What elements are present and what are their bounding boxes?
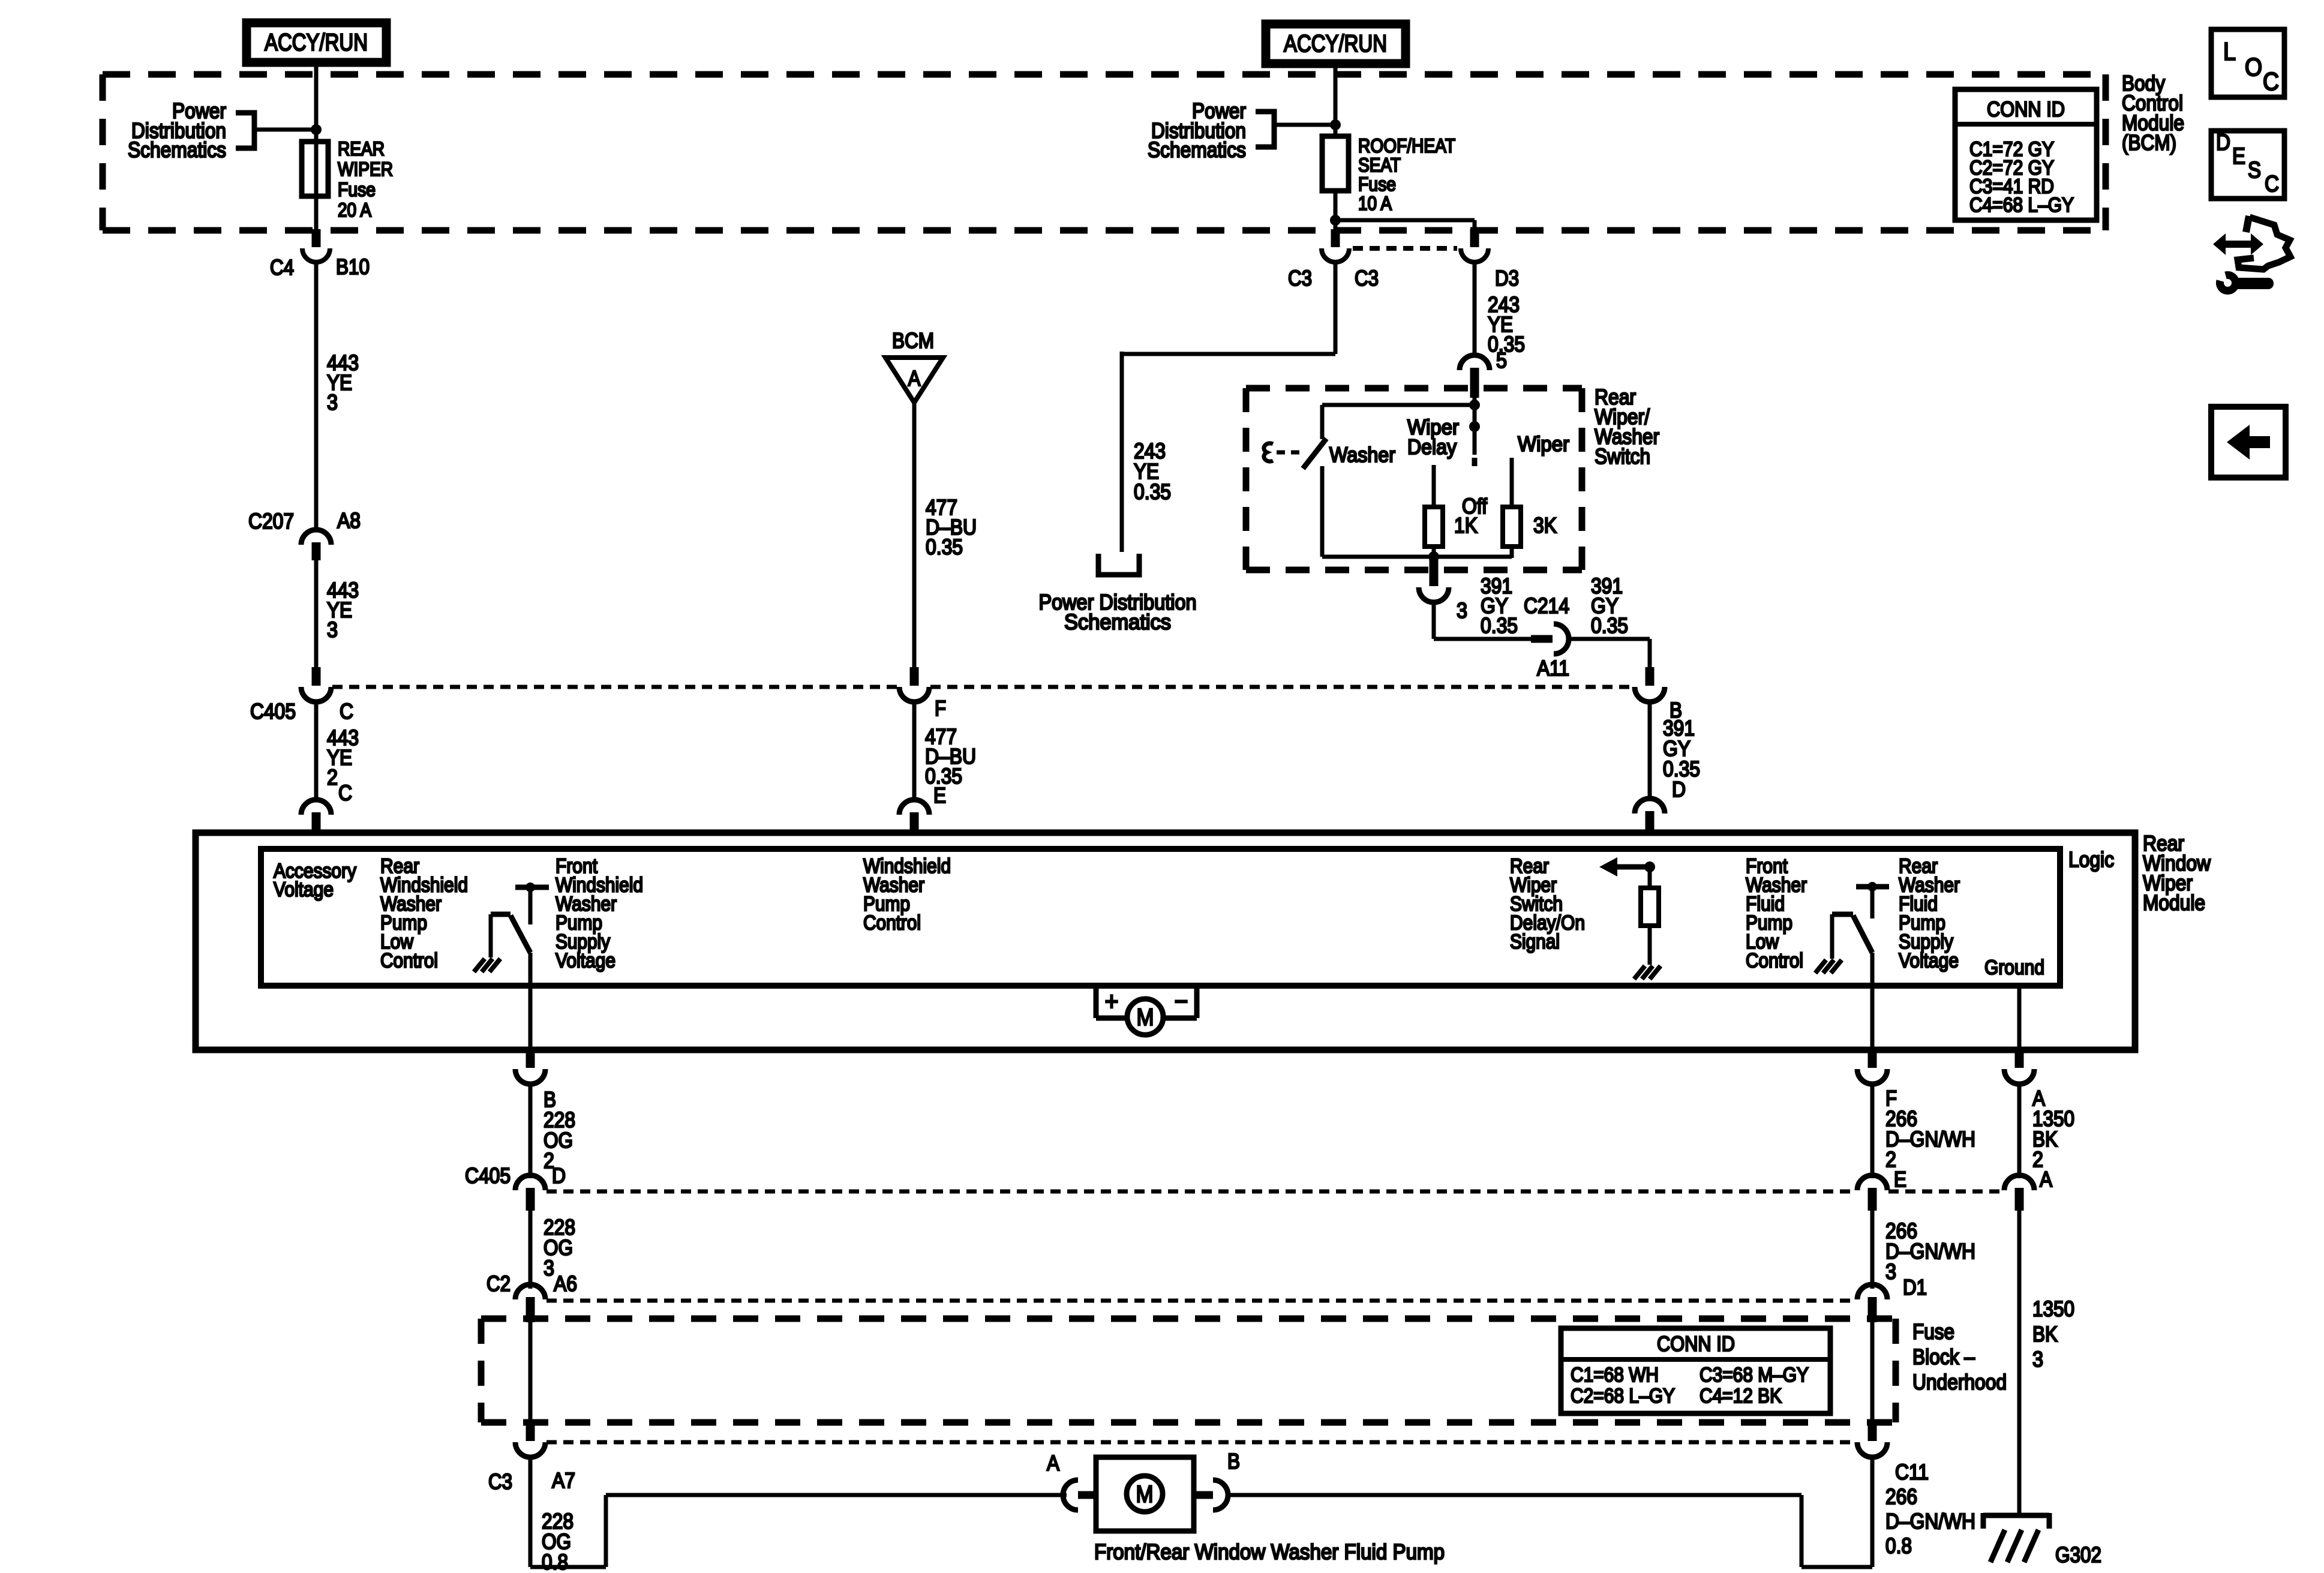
svg-text:Control: Control — [863, 912, 921, 935]
svg-text:E: E — [1894, 1167, 1906, 1191]
connector C214 cup — [1554, 624, 1569, 654]
connector D3 cup — [1461, 248, 1488, 262]
connector C207/A8 cup — [301, 530, 331, 545]
svg-text:Switch: Switch — [1595, 444, 1650, 469]
wire 443 YE 2 — [314, 702, 319, 800]
svg-text:Voltage: Voltage — [1899, 950, 1959, 972]
pump connector B stub — [1194, 1491, 1213, 1499]
wire 443 YE 3 (upper) — [314, 262, 319, 530]
svg-text:Ground: Ground — [1984, 956, 2044, 979]
connector C405-lower A stub — [2015, 1188, 2024, 1211]
dashed connector line C405 (lower) — [547, 1190, 2003, 1194]
svg-text:G302: G302 — [2055, 1542, 2101, 1567]
off-page bracket Power Distribution Schematics — [1098, 554, 1139, 575]
switch pin 3 cup — [1419, 587, 1449, 602]
bracket to Power Distribution Schematics (middle) — [1256, 112, 1274, 147]
wire module pin B out — [529, 953, 533, 1051]
junction dot below middle fuse — [1330, 215, 1341, 226]
label 477 D-BU 0.35 (upper) — [926, 495, 977, 559]
wire 266 D-GN/WH 2 — [1870, 1083, 1875, 1178]
connector C11 cup — [1857, 1442, 1887, 1457]
svg-text:3: 3 — [544, 1256, 554, 1280]
label F 266 D-GN/WH 2 — [1885, 1086, 1975, 1172]
label 477 D-BU 0.35 (lower) — [925, 724, 976, 788]
connector C405 pin B stub — [1646, 667, 1655, 686]
svg-text:E: E — [933, 783, 946, 807]
wire up to C11 — [1870, 1457, 1875, 1567]
icon DESC box — [2211, 130, 2284, 199]
signal arrow — [1599, 857, 1650, 876]
svg-text:0.8: 0.8 — [1885, 1533, 1912, 1558]
connector C405-lower B stub — [526, 1188, 535, 1211]
pump connector A stub — [1078, 1491, 1098, 1499]
svg-text:C4: C4 — [270, 255, 294, 280]
label Rear Windshield Washer Pump Low Control — [380, 855, 468, 972]
internal switch 2 supply bar — [1856, 884, 1889, 890]
junction dot middle fuse feed — [1330, 119, 1341, 130]
icon double-arrow with wrench — [2213, 216, 2290, 291]
connector D3 stub — [1470, 229, 1479, 247]
svg-text:M: M — [1137, 1004, 1154, 1031]
svg-text:D–GN/WH: D–GN/WH — [1885, 1239, 1975, 1263]
internal switch 2 contact — [1870, 887, 1875, 918]
connector C405-lower A cup — [2004, 1175, 2034, 1190]
wire ACCY/RUN-middle down to fuse — [1334, 64, 1338, 136]
wire step down — [1800, 1495, 1804, 1567]
svg-text:D: D — [552, 1163, 566, 1188]
svg-text:ROOF/HEAT: ROOF/HEAT — [1358, 135, 1455, 157]
svg-text:Fuse: Fuse — [1358, 173, 1396, 195]
svg-text:Wiper: Wiper — [1518, 433, 1569, 456]
wire 391 to module — [1648, 702, 1652, 800]
label Windshield Washer Pump Control — [863, 855, 951, 935]
svg-text:C3: C3 — [488, 1469, 512, 1494]
wire bottom right run — [1801, 1565, 1872, 1569]
module exit B cup — [515, 1069, 545, 1084]
connector C3-pump stub — [526, 1422, 535, 1441]
bracket to Power Distribution Schematics (left) — [236, 113, 254, 148]
wire module pin F out — [1870, 953, 1875, 1051]
module entry pin C cup — [301, 800, 331, 815]
connector C3-pump cup — [515, 1442, 545, 1457]
svg-text:B10: B10 — [336, 254, 370, 279]
momentary dashed link — [1277, 451, 1299, 455]
svg-text:Control: Control — [1746, 950, 1803, 972]
wire pin3 to C214 — [1434, 637, 1535, 641]
svg-text:C214: C214 — [1524, 593, 1569, 618]
node ACCY/RUN (middle) — [1266, 24, 1406, 64]
internal switch 2 junction — [1867, 882, 1877, 891]
connector C405 pin F cup — [899, 687, 929, 702]
svg-text:REAR: REAR — [338, 138, 385, 160]
svg-text:Logic: Logic — [2068, 847, 2114, 872]
svg-text:C405: C405 — [465, 1163, 511, 1188]
module entry pin D cup — [1635, 798, 1665, 813]
svg-text:D–GN/WH: D–GN/WH — [1885, 1127, 1975, 1151]
svg-text:(BCM): (BCM) — [2122, 130, 2176, 155]
svg-text:3: 3 — [1457, 598, 1467, 623]
connector C405-lower F cup — [1857, 1175, 1887, 1190]
svg-text:D: D — [1672, 777, 1686, 801]
rear window wiper module outer box — [196, 833, 2135, 1050]
internal switch 1 blade — [511, 915, 530, 953]
connector C405 pin C stub — [312, 667, 321, 686]
svg-text:A: A — [2040, 1167, 2052, 1191]
wire bracket-middle to junction — [1274, 123, 1335, 127]
label 1350 BK 3 — [2032, 1296, 2074, 1371]
svg-text:D: D — [2216, 130, 2230, 155]
wire step up — [604, 1495, 608, 1567]
svg-text:266: 266 — [1885, 1484, 1917, 1509]
wire delay contact — [1432, 465, 1436, 507]
BCM triangle A — [885, 358, 943, 403]
svg-text:Fuse: Fuse — [1912, 1319, 1954, 1344]
junction dot switch out — [1428, 551, 1439, 562]
wire fuse-middle to C3 — [1334, 191, 1338, 232]
junction dot switch 1 — [1469, 400, 1480, 410]
connector D1 cup — [1857, 1284, 1887, 1299]
internal switch 1 supply bar — [515, 885, 549, 890]
switch bottom rail — [1322, 555, 1512, 559]
wire bracket-left to junction — [254, 128, 316, 132]
module exit F stub — [1868, 1050, 1877, 1068]
svg-text:S: S — [2248, 158, 2261, 183]
svg-text:C3: C3 — [1288, 266, 1312, 290]
label Power Distribution Schematics (bottom) — [1039, 590, 1197, 634]
svg-text:Fuse: Fuse — [338, 179, 376, 200]
resistor delay/on pulldown — [1641, 888, 1659, 926]
connector C405-lower B cup — [515, 1175, 545, 1190]
svg-text:A: A — [1047, 1451, 1059, 1475]
connector C11 stub — [1868, 1422, 1877, 1441]
svg-text:ACCY/RUN: ACCY/RUN — [1284, 31, 1387, 57]
svg-text:3K: 3K — [1533, 513, 1557, 538]
internal ground (signal) — [1634, 966, 1661, 979]
icon left arrow box — [2211, 407, 2286, 478]
washer pump motor M — [1127, 1476, 1163, 1512]
resistor 1K — [1425, 507, 1443, 547]
label 443 YE 3 (lower) — [327, 578, 359, 642]
wire washer contact drop — [1320, 405, 1325, 439]
wire 266 D-GN/WH 3 — [1870, 1211, 1875, 1289]
svg-text:Front/Rear Window Washer Fluid: Front/Rear Window Washer Fluid Pump — [1094, 1539, 1445, 1564]
connector C405 pin F stub — [910, 667, 919, 686]
connector C405 pin C cup — [301, 687, 331, 702]
switch pin 3 stub — [1430, 558, 1439, 586]
connector C214 stub — [1531, 635, 1553, 643]
ground G302 — [1983, 1513, 2049, 1562]
svg-text:Off: Off — [1462, 494, 1488, 518]
label 443 YE 2 — [327, 725, 359, 789]
svg-text:Signal: Signal — [1510, 930, 1560, 953]
svg-text:0.35: 0.35 — [1481, 613, 1518, 638]
junction dot switch 2 — [1469, 421, 1480, 432]
wire ACCY/RUN-left down to fuse — [314, 62, 319, 230]
svg-text:C3=68 M–GY: C3=68 M–GY — [1700, 1364, 1809, 1386]
svg-text:A: A — [908, 366, 921, 391]
washer pump motor box — [1096, 1457, 1194, 1531]
label Power Distribution Schematics (left) — [128, 98, 226, 162]
label 266 D-GN/WH 3 — [1885, 1218, 1975, 1284]
svg-text:Voltage: Voltage — [556, 950, 615, 972]
label Fuse Block - Underhood — [1912, 1319, 2007, 1394]
svg-text:D–GN/WH: D–GN/WH — [1885, 1509, 1975, 1533]
svg-text:C405: C405 — [250, 699, 296, 724]
fuse block underhood dashed box — [481, 1319, 1896, 1422]
module exit A cup — [2004, 1069, 2034, 1084]
label A 1350 BK 2 — [2032, 1086, 2074, 1172]
label 228 OG 0.8 — [542, 1509, 574, 1573]
wire pin3 down — [1432, 602, 1436, 639]
internal switch 1 contact — [529, 887, 533, 924]
wire 1350 BK 3 — [2017, 1211, 2022, 1518]
wire 391 GY down — [1648, 639, 1652, 668]
wire washer pole down — [1320, 466, 1325, 557]
wire 243 YE to switch pin 5 — [1473, 262, 1477, 356]
svg-text:C: C — [340, 699, 353, 724]
wire switch top rail — [1322, 403, 1475, 407]
switch common wire — [1473, 398, 1477, 455]
wire 243 YE down to PDS — [1120, 352, 1124, 552]
label Rear Washer Fluid Pump Supply Voltage — [1899, 855, 1960, 972]
svg-text:20 A: 20 A — [338, 199, 372, 221]
label Wiper Delay — [1407, 416, 1459, 459]
icon LOC box — [2211, 29, 2284, 97]
junction dot left fuse feed — [311, 124, 322, 135]
wire 443 YE 3 (lower) — [314, 560, 319, 668]
svg-text:O: O — [2245, 53, 2262, 81]
dashed connector line C2/D1 — [547, 1299, 1856, 1303]
svg-text:CONN ID: CONN ID — [1657, 1332, 1735, 1356]
label 228 OG 3 — [544, 1215, 575, 1280]
svg-text:5: 5 — [1496, 348, 1507, 373]
svg-text:3: 3 — [1885, 1259, 1896, 1284]
wire through fuse block right — [1870, 1320, 1875, 1424]
module exit B stub — [526, 1050, 535, 1068]
module exit F cup — [1857, 1069, 1887, 1084]
svg-text:Schematics: Schematics — [1064, 610, 1171, 634]
connector C405-lower F stub — [1868, 1188, 1877, 1211]
internal switch 1 blade tick — [491, 912, 511, 917]
wire C3 down — [529, 1457, 533, 1567]
svg-text:2: 2 — [327, 765, 338, 789]
svg-text:ACCY/RUN: ACCY/RUN — [265, 29, 368, 56]
label 391 GY 0.35 (lower) — [1663, 716, 1700, 781]
label 243 YE 0.35 (left branch) — [1134, 439, 1171, 504]
module logic inner box — [261, 849, 2060, 986]
connector C4/B10 cup — [302, 248, 330, 262]
svg-text:Voltage: Voltage — [274, 878, 334, 901]
rear wiper/washer switch dashed box — [1246, 388, 1582, 570]
fuse REAR WIPER 20A — [302, 142, 328, 196]
motor M (module) — [1127, 999, 1163, 1035]
junction dot signal — [1644, 861, 1655, 872]
switch pin 5 cup — [1460, 355, 1490, 370]
label Body Control Module (BCM) — [2122, 71, 2184, 155]
wire C214 to corner — [1568, 637, 1650, 641]
connector C3 stub — [1331, 229, 1340, 247]
internal switch 2 blade tick — [1832, 912, 1853, 917]
svg-text:E: E — [2232, 144, 2245, 169]
wire corner to 243 branch left — [1122, 352, 1335, 356]
svg-text:A8: A8 — [337, 508, 361, 533]
wire to pump A — [606, 1493, 1067, 1497]
module exit A stub — [2015, 1050, 2024, 1068]
svg-text:C4=68 L–GY: C4=68 L–GY — [1969, 194, 2074, 217]
wire 228 OG 3 — [529, 1211, 533, 1289]
svg-text:C207: C207 — [248, 509, 294, 533]
svg-text:Module: Module — [2143, 890, 2205, 915]
connector C3 cup — [1322, 248, 1349, 262]
svg-text:1350: 1350 — [2032, 1296, 2074, 1321]
svg-text:C: C — [2263, 67, 2279, 95]
label 391 GY 0.35 (col1) — [1481, 574, 1518, 638]
label Front Washer Fluid Pump Low Control — [1746, 855, 1807, 972]
node ACCY/RUN (left) — [247, 23, 386, 62]
connector C207/A8 stub — [312, 542, 321, 560]
label Front Windshield Washer Pump Supply Voltage — [556, 855, 643, 972]
svg-text:0.35: 0.35 — [1134, 479, 1171, 504]
wire 477 D-BU (upper) — [912, 403, 917, 668]
wire junction to D3 branch — [1335, 218, 1475, 223]
svg-text:L: L — [2223, 37, 2236, 65]
internal switch 1 junction — [526, 882, 535, 892]
wire 477 D-BU (lower) — [912, 702, 917, 800]
internal switch 1 ground lead — [489, 914, 493, 957]
fuse ROOF/HEAT SEAT 10A — [1322, 136, 1349, 191]
switch blade (washer) — [1303, 439, 1326, 469]
svg-text:Underhood: Underhood — [1912, 1370, 2007, 1394]
label Rear Wiper/Washer Switch — [1595, 385, 1659, 469]
label Rear Window Wiper Module — [2143, 831, 2211, 915]
label REAR WIPER Fuse 20 A — [338, 138, 393, 221]
svg-text:Block –: Block – — [1912, 1344, 1975, 1369]
svg-text:10 A: 10 A — [1358, 193, 1392, 214]
svg-text:C2=68 L–GY: C2=68 L–GY — [1571, 1385, 1675, 1407]
label Accessory Voltage — [274, 860, 356, 901]
wire through fuse block left — [529, 1320, 533, 1424]
label Power Distribution Schematics (middle) — [1148, 98, 1246, 162]
power distribution dashed box (top) — [103, 74, 2106, 230]
fuse block CONN ID table — [1561, 1328, 1830, 1413]
internal switch 2 ground — [1815, 960, 1842, 973]
svg-text:BK: BK — [2032, 1322, 2058, 1346]
svg-text:A7: A7 — [552, 1468, 575, 1493]
module entry pin D stub — [1646, 811, 1655, 835]
svg-text:0.35: 0.35 — [1591, 613, 1628, 638]
label 443 YE 3 (upper) — [327, 350, 359, 415]
svg-text:C4=12 BK: C4=12 BK — [1700, 1385, 1782, 1407]
svg-text:3: 3 — [327, 390, 338, 415]
connector C2 cup — [515, 1284, 545, 1299]
svg-text:+: + — [1105, 987, 1119, 1016]
BCM CONN ID table — [1955, 89, 2097, 220]
dashed link C3-D3 — [1353, 246, 1457, 251]
wire wiper contact — [1510, 458, 1514, 507]
connector D1 stub — [1868, 1297, 1877, 1322]
svg-text:C2: C2 — [487, 1271, 511, 1296]
svg-text:Delay: Delay — [1407, 436, 1457, 459]
internal switch 1 ground — [474, 959, 500, 972]
svg-text:Control: Control — [380, 950, 438, 972]
wire resistor to ground — [1648, 926, 1652, 965]
label B 228 OG 2 — [544, 1087, 575, 1173]
module entry pin C stub — [312, 812, 321, 835]
wire C3 down to corner — [1334, 262, 1338, 354]
svg-text:C1=68 WH: C1=68 WH — [1571, 1364, 1659, 1386]
connector C4/B10 stub — [312, 229, 321, 247]
internal switch 2 blade — [1853, 915, 1872, 953]
pump connector A cup — [1063, 1480, 1078, 1510]
internal switch 2 ground lead — [1830, 914, 1834, 959]
svg-text:−: − — [1175, 987, 1188, 1016]
module entry pin E cup — [899, 800, 929, 815]
label Rear Wiper Switch Delay/On Signal — [1510, 855, 1585, 953]
dashed connector line C3/C11 — [547, 1440, 1856, 1445]
svg-text:3: 3 — [327, 617, 338, 642]
connector C2 stub — [526, 1297, 535, 1322]
wire pump B right run — [1227, 1493, 1801, 1497]
svg-text:C3: C3 — [1355, 266, 1379, 290]
svg-text:A11: A11 — [1537, 656, 1569, 680]
svg-text:C: C — [338, 781, 352, 805]
svg-text:3: 3 — [2032, 1347, 2043, 1371]
wire module pin A (ground) — [2017, 987, 2022, 1051]
svg-text:A6: A6 — [554, 1271, 577, 1296]
label 266 D-GN/WH 0.8 — [1885, 1484, 1975, 1558]
svg-text:BCM: BCM — [892, 328, 934, 353]
svg-text:C11: C11 — [1895, 1460, 1929, 1484]
svg-text:M: M — [1136, 1481, 1154, 1508]
off contact dash — [1472, 458, 1478, 466]
svg-text:Washer: Washer — [1329, 443, 1395, 467]
svg-text:WIPER: WIPER — [338, 158, 393, 180]
resistor 3K — [1503, 507, 1521, 547]
switch pin 5 stub — [1470, 368, 1479, 398]
wire D3 branch down — [1473, 220, 1477, 232]
svg-text:B: B — [1227, 1449, 1240, 1473]
wire 1350 BK 2 — [2017, 1083, 2022, 1178]
motor pocket (module) — [1096, 984, 1197, 1018]
label 391 GY 0.35 (col2) — [1591, 574, 1628, 638]
wire 228 OG 2 — [529, 1083, 533, 1178]
svg-text:SEAT: SEAT — [1358, 154, 1401, 176]
connector C405 pin B cup — [1635, 687, 1665, 702]
label D3 243 YE 0.35 — [1488, 292, 1525, 356]
wire 3K to rail — [1510, 547, 1514, 558]
svg-text:0.35: 0.35 — [926, 535, 963, 559]
label ROOF/HEAT SEAT Fuse 10 A — [1358, 135, 1455, 214]
dashed connector line C405 (upper) — [332, 685, 1634, 689]
svg-text:CONN ID: CONN ID — [1987, 98, 2065, 121]
wire bottom left run — [530, 1565, 606, 1569]
wire signal to resistor — [1648, 867, 1652, 888]
svg-text:D1: D1 — [1903, 1275, 1927, 1299]
svg-text:C: C — [2265, 172, 2279, 197]
svg-text:D3: D3 — [1495, 266, 1519, 290]
svg-text:Schematics: Schematics — [128, 137, 226, 162]
momentary symbol — [1264, 443, 1273, 461]
svg-text:Schematics: Schematics — [1148, 137, 1246, 162]
pump connector B cup — [1213, 1480, 1228, 1510]
svg-text:F: F — [935, 696, 946, 721]
module entry pin E stub — [910, 812, 919, 835]
wire 1K to rail — [1432, 547, 1436, 558]
svg-text:0.8: 0.8 — [542, 1550, 568, 1573]
